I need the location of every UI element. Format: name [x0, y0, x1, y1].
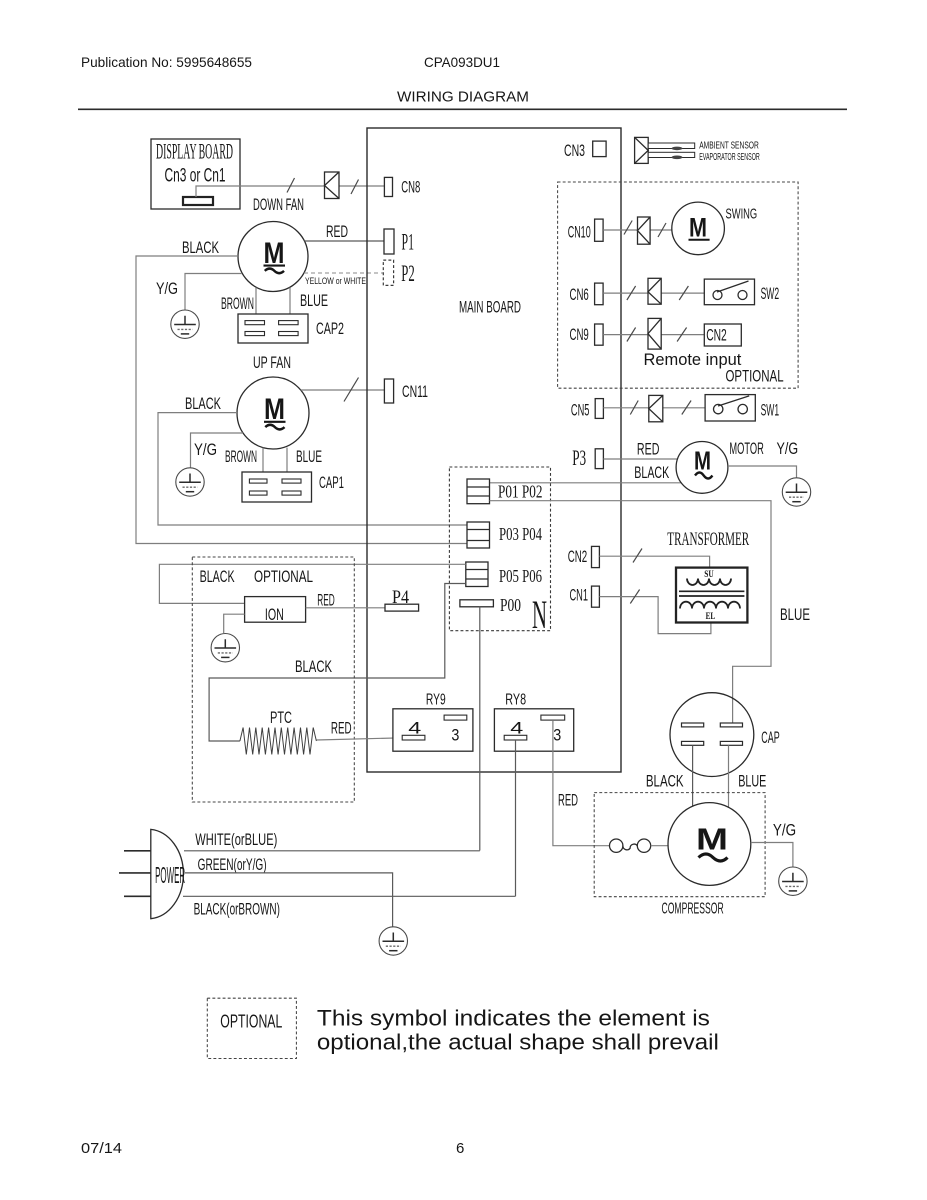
wire compressor to ground	[751, 843, 793, 868]
connector CN10	[568, 219, 603, 242]
wires motor to CAP2	[256, 288, 290, 315]
label RED (ptc)	[331, 719, 352, 738]
label BLUE (down fan)	[300, 291, 328, 310]
svg-text:SU: SU	[704, 569, 714, 579]
label YELLOW or WHITE	[305, 276, 366, 286]
svg-text:6: 6	[456, 1140, 464, 1157]
connector symbol on DOWN FAN wire	[325, 172, 340, 199]
svg-text:EL: EL	[706, 611, 716, 621]
label MOTOR	[729, 439, 763, 458]
connector P05 P06	[466, 562, 542, 587]
svg-text:RED: RED	[637, 440, 660, 459]
svg-text:AMBIENT SENSOR: AMBIENT SENSOR	[699, 139, 759, 151]
wire BLACK up fan to P03	[158, 413, 467, 525]
svg-text:07/14: 07/14	[81, 1140, 122, 1157]
ground (ion)	[211, 634, 239, 662]
svg-text:P2: P2	[401, 261, 415, 286]
wire PTC to RY9 pin4	[316, 738, 402, 740]
svg-text:ION: ION	[265, 605, 284, 624]
label RED (ion)	[317, 591, 335, 610]
svg-text:BLUE: BLUE	[738, 772, 766, 791]
slash marks on DOWN FAN wire	[287, 178, 359, 194]
label TRANSFORMER	[667, 529, 749, 550]
sensor lead EVAPORATOR	[648, 152, 695, 159]
svg-text:SW1: SW1	[761, 401, 780, 420]
label RED (motor)	[637, 440, 660, 459]
display board connector Cn3/Cn1 pad	[183, 197, 213, 205]
capacitor CAP2	[238, 314, 344, 343]
label Y/G (down fan)	[156, 279, 178, 298]
motor MOTOR	[676, 442, 728, 494]
connector P00	[460, 595, 521, 615]
OPTIONAL dashed box (swing/sw2/remote)	[558, 182, 799, 388]
svg-text:CN2: CN2	[706, 326, 727, 345]
svg-text:DOWN FAN: DOWN FAN	[253, 196, 304, 214]
label EVAPORATOR SENSOR	[699, 151, 760, 163]
svg-text:CN9: CN9	[570, 325, 589, 344]
wire CAP blue to compressor	[728, 745, 730, 808]
label RED (compressor feed)	[558, 790, 578, 809]
label RED (down fan)	[326, 223, 348, 241]
svg-text:M: M	[689, 213, 707, 243]
svg-text:P03 P04: P03 P04	[499, 524, 542, 544]
connector symbol on CN6 wire	[648, 278, 661, 304]
svg-text:3: 3	[451, 726, 459, 745]
slashes on CN6 wire	[627, 286, 689, 300]
svg-text:BROWN: BROWN	[221, 294, 254, 313]
label OPTIONAL (right box)	[726, 367, 784, 385]
wire Y/G down fan to ground	[185, 274, 242, 311]
ground (power)	[379, 927, 407, 955]
capacitor CAP1	[242, 472, 344, 502]
label Y/G (motor)	[777, 439, 799, 458]
label BROWN (down fan)	[221, 294, 254, 313]
label AMBIENT SENSOR	[699, 139, 759, 151]
power plug prongs	[119, 851, 151, 897]
connector P03 P04	[467, 522, 542, 548]
slash on CN11 wire	[344, 378, 359, 402]
slash on CN1 wire	[630, 590, 639, 604]
connector symbol on CN9 wire	[648, 318, 661, 349]
svg-text:3: 3	[553, 726, 561, 745]
svg-text:M: M	[696, 822, 728, 857]
label BLACK (cap)	[646, 772, 684, 791]
svg-text:OPTIONAL: OPTIONAL	[220, 1012, 282, 1032]
motor UP FAN	[237, 377, 309, 449]
svg-text:COMPRESSOR: COMPRESSOR	[662, 900, 724, 917]
wire CN9 to CN2 remote	[603, 334, 704, 336]
svg-text:P00: P00	[500, 595, 521, 615]
label GREEN(orY/G)	[198, 856, 267, 874]
ION dashed OPTIONAL box	[192, 557, 354, 802]
connector P3	[572, 445, 603, 470]
svg-text:Y/G: Y/G	[156, 279, 178, 298]
svg-text:P1: P1	[402, 229, 415, 254]
wire power GREEN to ground	[185, 873, 393, 927]
svg-text:RED: RED	[331, 719, 352, 738]
svg-text:RED: RED	[558, 790, 578, 809]
connector P4	[385, 587, 419, 611]
slashes on CN9 wire	[627, 328, 687, 342]
wire CN6 to SW2	[603, 292, 704, 294]
footer date 07/14	[81, 1140, 122, 1157]
svg-text:M: M	[694, 446, 711, 476]
svg-text:BROWN: BROWN	[225, 447, 257, 466]
label OPTIONAL (ion box)	[254, 567, 313, 586]
svg-text:CN1: CN1	[570, 586, 589, 605]
svg-text:BLUE: BLUE	[300, 291, 328, 310]
svg-text:CN6: CN6	[570, 285, 589, 304]
connector CN5	[571, 399, 604, 420]
svg-text:MAIN BOARD: MAIN BOARD	[459, 298, 521, 317]
label BLACK (ion)	[200, 567, 235, 586]
wire RY8 pin3 RED to compressor	[553, 720, 610, 846]
label Y/G (compressor)	[773, 820, 796, 839]
svg-text:CAP: CAP	[761, 728, 779, 747]
label UP FAN	[253, 354, 291, 372]
label BLUE (up fan)	[296, 447, 322, 466]
capacitor CAP (run capacitor)	[670, 693, 754, 777]
connector CN3	[564, 141, 606, 160]
legend OPTIONAL box	[207, 998, 296, 1058]
wire P05 to ION (black)	[159, 564, 465, 603]
header rule line	[78, 108, 847, 110]
svg-text:CN2: CN2	[568, 547, 588, 566]
svg-text:BLUE: BLUE	[780, 605, 810, 624]
svg-text:RED: RED	[317, 591, 335, 610]
svg-text:BLUE: BLUE	[296, 447, 322, 466]
svg-text:PTC: PTC	[270, 708, 292, 727]
overload protector	[610, 839, 669, 852]
connector CN9	[570, 324, 604, 345]
connector CN6	[570, 283, 604, 305]
label BLACK (ptc path)	[295, 657, 332, 676]
svg-text:BLACK: BLACK	[182, 238, 219, 257]
power plug POWER	[151, 829, 185, 918]
main board MAIN BOARD	[367, 128, 621, 772]
svg-text:BLACK: BLACK	[185, 394, 221, 413]
wire power WHITE to P00	[184, 850, 480, 852]
label BLACK(orBROWN)	[194, 900, 280, 918]
sensor connector symbol	[635, 137, 649, 163]
legend text line 1	[317, 1006, 710, 1031]
label BLACK (up fan)	[185, 394, 221, 413]
wire P06 to PTC	[209, 584, 466, 742]
label BLACK (motor)	[634, 463, 669, 482]
header model CPA093DU1	[424, 54, 500, 70]
transformer T1	[676, 568, 747, 623]
compressor dashed box	[594, 793, 765, 897]
svg-text:DISPLAY BOARD: DISPLAY BOARD	[156, 139, 233, 164]
wire motor to CN11	[301, 389, 385, 391]
dashed wire motor to P2	[304, 272, 383, 274]
svg-text:CAP1: CAP1	[319, 473, 344, 492]
label COMPRESSOR	[662, 900, 724, 917]
wire CN10 to swing motor	[603, 229, 672, 231]
label WHITE(orBLUE)	[195, 831, 277, 849]
label Y/G (up fan)	[194, 440, 217, 459]
connector symbol on CN10 wire	[638, 217, 651, 244]
wires motor to CAP1	[263, 448, 287, 472]
wire BLACK down fan to P04	[136, 256, 467, 544]
wire CN2 to transformer	[599, 556, 709, 567]
svg-text:Cn3 or Cn1: Cn3 or Cn1	[165, 165, 226, 187]
connector CN11	[384, 379, 428, 403]
slash on CN2 wire	[633, 549, 642, 563]
motor SWING	[672, 202, 725, 255]
svg-text:CN10: CN10	[568, 223, 591, 242]
wire ION to P4	[306, 607, 385, 609]
svg-text:RY9: RY9	[426, 691, 446, 708]
svg-text:Y/G: Y/G	[194, 440, 217, 459]
svg-text:BLACK: BLACK	[200, 567, 235, 586]
title WIRING DIAGRAM	[397, 89, 529, 106]
label CAP	[761, 728, 779, 747]
slashes on CN10 wire	[624, 221, 666, 238]
svg-text:N: N	[532, 592, 547, 637]
connector CN1	[570, 586, 600, 608]
resistor PTC zigzag	[240, 728, 317, 755]
svg-text:RY8: RY8	[505, 691, 526, 708]
wire CN5 to SW1	[603, 407, 705, 409]
connector CN8	[384, 177, 420, 196]
motor DOWN FAN	[238, 222, 308, 292]
sensor lead AMBIENT	[648, 143, 695, 150]
header publication number	[81, 54, 252, 70]
wire P01 BLACK to motor	[490, 482, 682, 484]
remote input connector CN2 box	[704, 324, 741, 346]
svg-text:P01 P02: P01 P02	[498, 482, 543, 502]
label BROWN (up fan)	[225, 447, 257, 466]
svg-text:This symbol indicates the elem: This symbol indicates the element is	[317, 1006, 710, 1031]
label SWING	[726, 206, 758, 222]
ground (motor)	[782, 478, 810, 506]
switch SW1	[705, 395, 779, 421]
svg-text:BLACK: BLACK	[295, 657, 332, 676]
svg-text:YELLOW or WHITE: YELLOW or WHITE	[305, 276, 366, 286]
display board DISPLAY BOARD box	[151, 139, 240, 210]
wire power BLACK to RY8	[183, 895, 516, 897]
ground (compressor)	[779, 867, 807, 895]
svg-text:TRANSFORMER: TRANSFORMER	[667, 529, 749, 550]
connector P1	[384, 229, 414, 254]
dashed box P connectors	[449, 467, 550, 631]
ground (up fan)	[176, 468, 204, 496]
wire motor to ground	[728, 466, 797, 478]
wire Y/G up fan to ground	[191, 433, 244, 468]
relay RY9	[393, 691, 473, 751]
svg-text:OPTIONAL: OPTIONAL	[726, 367, 784, 385]
node N label	[532, 592, 547, 637]
svg-text:GREEN(orY/G): GREEN(orY/G)	[198, 856, 267, 874]
svg-text:MOTOR: MOTOR	[729, 439, 763, 458]
svg-text:CN5: CN5	[571, 401, 590, 420]
connector CN2	[568, 546, 600, 567]
wire display board to CN8	[196, 186, 384, 197]
ground (down fan)	[171, 310, 199, 338]
switch SW2	[704, 279, 779, 305]
label BLUE (transformer net)	[780, 605, 810, 624]
svg-text:Publication No: 5995648655: Publication No: 5995648655	[81, 54, 252, 70]
svg-text:BLACK: BLACK	[634, 463, 669, 482]
svg-text:POWER: POWER	[155, 862, 185, 888]
svg-text:EVAPORATOR SENSOR: EVAPORATOR SENSOR	[699, 151, 760, 163]
svg-text:P3: P3	[572, 445, 586, 470]
wire P3 RED to motor	[603, 458, 677, 460]
relay RY8	[494, 691, 573, 751]
svg-text:SWING: SWING	[726, 206, 758, 222]
svg-text:BLACK(orBROWN): BLACK(orBROWN)	[194, 900, 280, 918]
svg-text:Y/G: Y/G	[777, 439, 799, 458]
wire motor to P1	[304, 240, 384, 242]
svg-text:CN11: CN11	[402, 382, 428, 401]
svg-text:BLACK: BLACK	[646, 772, 684, 791]
label Remote input	[644, 351, 742, 369]
svg-text:WHITE(orBLUE): WHITE(orBLUE)	[195, 831, 277, 849]
component ION	[245, 597, 306, 625]
svg-text:CAP2: CAP2	[316, 319, 344, 338]
svg-text:OPTIONAL: OPTIONAL	[254, 567, 313, 586]
footer page 6	[456, 1140, 464, 1157]
svg-text:UP FAN: UP FAN	[253, 354, 291, 372]
svg-text:CPA093DU1: CPA093DU1	[424, 54, 500, 70]
legend text line 2	[317, 1030, 719, 1055]
wire P02 to transformer BLUE net	[490, 501, 772, 723]
slashes on CN5 wire	[630, 401, 691, 415]
svg-text:WIRING DIAGRAM: WIRING DIAGRAM	[397, 89, 529, 106]
wire CN1 to transformer	[599, 597, 711, 634]
label DOWN FAN	[253, 196, 304, 214]
svg-text:Remote input: Remote input	[644, 351, 742, 369]
label BLACK (down fan)	[182, 238, 219, 257]
svg-text:CN8: CN8	[401, 178, 420, 197]
wire CAP black to compressor	[692, 745, 694, 806]
label BLUE (cap)	[738, 772, 766, 791]
svg-text:CN3: CN3	[564, 141, 585, 160]
connector symbol on CN5 wire	[649, 395, 663, 421]
wire ION to ground	[224, 614, 245, 633]
label PTC	[270, 708, 292, 727]
svg-text:optional,the actual shape shal: optional,the actual shape shall prevail	[317, 1030, 719, 1055]
connector P2 (dashed)	[383, 260, 415, 286]
connector P01 P02	[467, 479, 543, 504]
wire P00 down to power white	[479, 607, 481, 851]
svg-text:Y/G: Y/G	[773, 820, 796, 839]
wire RY8 pin4 to power black	[515, 740, 517, 896]
svg-text:P05 P06: P05 P06	[499, 566, 542, 586]
svg-text:SW2: SW2	[761, 284, 780, 303]
svg-text:RED: RED	[326, 223, 348, 241]
motor COMPRESSOR	[668, 803, 751, 886]
